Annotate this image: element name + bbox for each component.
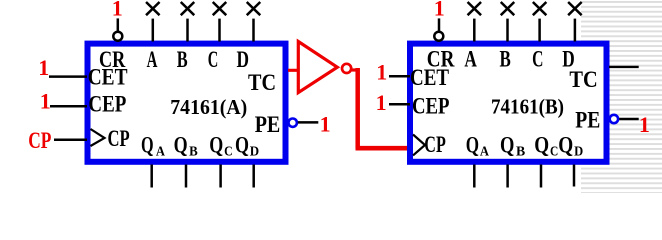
- svg-text:B: B: [516, 145, 525, 160]
- svg-text:A: A: [464, 47, 477, 72]
- wire QC A: [219, 165, 222, 188]
- wire inverter output vertical: [355, 68, 360, 148]
- svg-text:A: A: [480, 145, 490, 160]
- wire TC B: [609, 66, 639, 68]
- svg-text:B: B: [189, 144, 198, 159]
- svg-text:Q: Q: [141, 132, 154, 157]
- wire to CP B horizontal: [356, 146, 408, 151]
- svg-text:CEP: CEP: [88, 92, 126, 117]
- X mark pin A (B): [468, 2, 482, 15]
- svg-text:1: 1: [376, 60, 387, 85]
- wire pin D (B): [574, 19, 577, 42]
- svg-text:CET: CET: [410, 65, 449, 90]
- wire QA A: [150, 165, 153, 188]
- clock triangle CP (B): [413, 135, 425, 156]
- wire CET B: [389, 75, 410, 78]
- svg-text:C: C: [550, 145, 558, 160]
- X mark pin B (B): [501, 2, 515, 15]
- inverter G1 bubble: [342, 64, 351, 73]
- svg-text:Q: Q: [235, 132, 249, 157]
- svg-text:Q: Q: [558, 133, 573, 158]
- IC U2 74161(B) body: [410, 44, 607, 162]
- X mark pin C (B): [533, 2, 547, 15]
- svg-text:TC: TC: [569, 67, 597, 92]
- bubble PE (A): [289, 119, 297, 127]
- wire CEP B: [389, 103, 410, 106]
- wire TC A to inverter G1: [288, 69, 298, 72]
- wire CP A: [54, 139, 87, 142]
- svg-text:A: A: [147, 47, 158, 72]
- svg-text:1: 1: [639, 112, 650, 137]
- wire QD A: [252, 165, 255, 188]
- wire QB A: [185, 165, 188, 188]
- wire QA B: [473, 165, 476, 188]
- X mark pin D (B): [568, 2, 582, 15]
- svg-text:CET: CET: [88, 65, 128, 90]
- svg-text:D: D: [237, 47, 250, 72]
- X mark pin A (A): [146, 2, 160, 15]
- svg-text:Q: Q: [174, 132, 188, 157]
- svg-text:B: B: [500, 47, 511, 72]
- svg-text:1: 1: [434, 0, 445, 21]
- wire pin A (B): [473, 19, 476, 42]
- wire pin C (B): [538, 19, 541, 42]
- wire PE B: [619, 118, 639, 121]
- svg-text:74161(A): 74161(A): [170, 95, 247, 119]
- svg-text:Q: Q: [209, 132, 223, 157]
- inversion bubble CR A: [113, 32, 122, 41]
- svg-text:Q: Q: [466, 133, 479, 158]
- svg-text:A: A: [156, 144, 166, 159]
- wire QC B: [540, 165, 543, 188]
- svg-text:1: 1: [40, 89, 51, 114]
- svg-text:1: 1: [112, 0, 123, 21]
- wire QD B: [573, 165, 576, 187]
- X mark pin C (A): [213, 2, 227, 15]
- clock triangle CP (A): [91, 129, 105, 146]
- svg-text:PE: PE: [575, 108, 600, 133]
- wire CEP A: [50, 105, 87, 108]
- inversion bubble CR B: [434, 32, 443, 41]
- X mark pin D (A): [247, 2, 261, 15]
- svg-text:Q: Q: [534, 133, 549, 158]
- IC U1 74161(A) body: [88, 44, 286, 162]
- svg-text:1: 1: [320, 112, 331, 137]
- svg-text:B: B: [177, 47, 188, 72]
- wire CR B: [438, 18, 441, 31]
- wire pin B (A): [186, 19, 189, 42]
- svg-text:CP: CP: [424, 132, 446, 157]
- wire PE A: [298, 121, 319, 124]
- svg-text:D: D: [574, 145, 583, 160]
- background page texture: [581, 0, 662, 193]
- X mark pin B (A): [181, 2, 195, 15]
- wire CR A: [117, 18, 120, 31]
- svg-text:1: 1: [38, 55, 49, 80]
- svg-text:74161(B): 74161(B): [491, 94, 564, 118]
- svg-text:Q: Q: [500, 133, 514, 158]
- svg-text:CEP: CEP: [412, 94, 450, 119]
- wire pin B (B): [506, 19, 509, 42]
- svg-text:C: C: [224, 144, 233, 159]
- svg-text:C: C: [208, 47, 219, 72]
- wire pin D (A): [252, 19, 255, 42]
- svg-text:D: D: [250, 144, 259, 159]
- wire QB B: [506, 165, 509, 188]
- wire pin C (A): [218, 19, 221, 42]
- svg-text:CP: CP: [28, 128, 51, 153]
- wire CET A: [49, 75, 87, 78]
- inverter G1 triangle: [298, 42, 337, 93]
- bubble PE (B): [610, 115, 618, 123]
- svg-text:CP: CP: [108, 126, 130, 151]
- svg-text:C: C: [532, 47, 543, 72]
- wire inverter output stub: [352, 68, 358, 71]
- wire pin A (A): [152, 19, 155, 42]
- svg-text:PE: PE: [255, 112, 281, 137]
- svg-text:TC: TC: [248, 70, 276, 95]
- svg-text:1: 1: [376, 90, 387, 115]
